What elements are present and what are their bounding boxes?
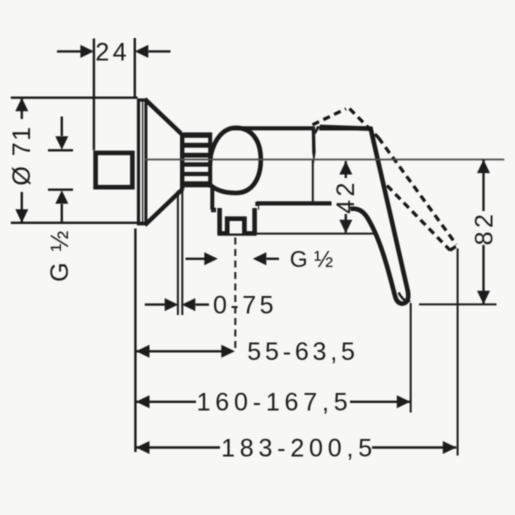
body top edge [230,126,312,130]
union nut ribbed [182,132,210,190]
extension dashed tip [457,249,459,456]
valve body block [214,129,313,208]
escutcheon cone [146,100,182,224]
svg-text:Ø 71: Ø 71 [8,125,36,185]
dim 160-167,5 [136,401,410,403]
svg-text:82: 82 [470,211,498,246]
dim G1/2 left vertical [48,117,73,224]
svg-text:183-200,5: 183-200,5 [221,434,377,462]
svg-text:42: 42 [332,179,360,214]
dim 183-200,5 [136,446,456,448]
centerline axis [145,159,504,161]
extension outlet centerline dashed [234,238,236,353]
outlet hose nut [227,219,244,234]
body bottom edge [257,201,332,205]
body step right [255,202,259,210]
handle base left edge [315,126,321,134]
body right thin edge [312,160,314,202]
extension handle tip [410,303,412,413]
dim 55-63,5 [136,350,233,352]
dim 0-75 [145,191,209,316]
svg-text:G ½: G ½ [46,229,74,282]
handle tip inner curl [399,293,411,302]
svg-text:0-75: 0-75 [213,291,277,319]
dashed lever raised position [313,109,458,251]
svg-text:G ½: G ½ [290,246,333,272]
supply nipple G1/2 [96,153,133,187]
escutcheon back plate [139,100,147,224]
body sphere [208,128,261,193]
dim 42 [251,161,374,234]
extension wall line [134,229,136,453]
handle notch sliver [312,126,316,164]
svg-text:160-167,5: 160-167,5 [197,389,353,417]
dim diameter 71 [11,98,146,223]
outlet port [216,206,258,235]
escutcheon plate right edge [145,100,148,225]
svg-text:24: 24 [95,39,130,67]
dim 24 [57,38,171,150]
svg-text:55-63,5: 55-63,5 [247,338,358,366]
outlet top edge [211,208,258,213]
handle top edge [319,126,370,130]
dim G1/2 bottom horizontal [186,258,280,260]
body step left [210,187,214,210]
dim 82 [419,160,497,305]
handle lever solid [320,127,408,305]
